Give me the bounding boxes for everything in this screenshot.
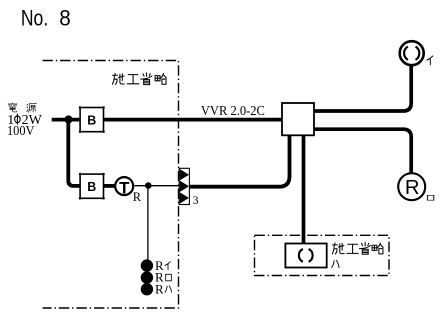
label: 工 (top) [127, 75, 138, 84]
svg-text:VVR 2.0-2C: VVR 2.0-2C [201, 103, 265, 118]
ceiling rosette ハ (rect) [285, 244, 326, 268]
remote relay Rイ [141, 259, 153, 271]
svg-text:8: 8 [59, 5, 70, 30]
label: ハ subscript of rosette ハ [332, 260, 339, 267]
svg-text:No.: No. [21, 5, 48, 30]
connector (3-wire) [179, 168, 199, 207]
wire: junction box bottom to rosette ハ [302, 134, 306, 244]
junction box [282, 103, 314, 135]
label: 略 (top) [155, 73, 166, 84]
svg-text:B: B [87, 113, 96, 127]
svg-text:T: T [119, 178, 130, 197]
lamp R (ロ) [398, 173, 425, 200]
timer TR [115, 177, 142, 204]
svg-text:B: B [87, 180, 96, 194]
ceiling rosette イ (round) [400, 41, 424, 65]
label: ロ subscript of lamp R [427, 195, 433, 200]
remote relay Rハ [141, 283, 153, 295]
node: source junction dot [64, 115, 72, 123]
wire: branch down-left to breaker B2 [68, 120, 80, 186]
wire (thin): node down to relays [147, 186, 149, 260]
wire: B2 to timer TR [103, 184, 116, 188]
label: イ of relay Rイ [165, 262, 170, 270]
wire: junction box right down to lamp R [314, 129, 412, 173]
label: 省 (top) [141, 73, 152, 85]
label: ロ of relay Rロ [166, 274, 172, 281]
svg-text:R: R [405, 177, 420, 199]
label: ハ of relay Rハ [165, 286, 172, 292]
breaker B2 [79, 173, 105, 200]
kanji labels drawn as paths [8, 56, 434, 292]
remote relay Rロ [141, 271, 153, 283]
label: 省 (bottom) [359, 243, 370, 255]
wire (thin): timer to connector via node [135, 185, 180, 187]
svg-text:R: R [155, 281, 164, 296]
wire: junction box bottom-left to connector [189, 134, 289, 187]
svg-text:3: 3 [193, 195, 199, 207]
construction-omitted boundary (left dashed box) [43, 61, 179, 309]
label: 施 (top 施工省略) [112, 73, 124, 84]
breaker B1 [79, 106, 105, 133]
label: 源 (of 電源) [27, 104, 37, 113]
wire: source feed to junction box [52, 118, 283, 122]
svg-text:R: R [133, 190, 142, 204]
label: 電 (of 電源) [8, 103, 17, 112]
svg-text:100V: 100V [7, 124, 35, 139]
node: timer output junction dot [145, 182, 152, 189]
label: 施 (bottom 施工省略) [332, 243, 344, 254]
label: 工 (bottom) [347, 244, 358, 253]
label: イ subscript of rosette [427, 56, 433, 65]
wire: junction box right to rosette イ [314, 66, 412, 111]
construction-omitted boundary (bottom-right dashed box) [255, 235, 390, 275]
label: 略 (bottom) [372, 243, 383, 254]
